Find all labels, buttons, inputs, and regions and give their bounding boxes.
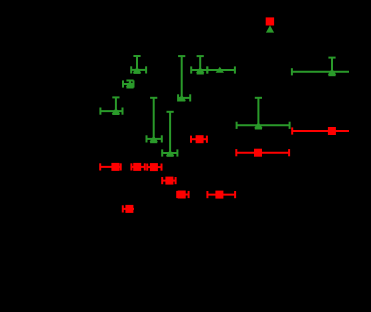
red point 5 (x137 y167) x error bar [131, 163, 144, 170]
red point 8 (x182 y194) square marker [178, 191, 186, 199]
red point 9 (x219 y195) x error bar [207, 191, 235, 198]
green point 2 (x130 y84) x error bar [123, 80, 134, 87]
green point 5 (x170 y153) x error bar [162, 149, 177, 156]
red point 7 (x169 y181) square marker [165, 177, 173, 185]
red point 5 (x137 y167) square marker [133, 163, 141, 171]
green point 4 (x154 y139) y error bar [150, 98, 157, 142]
green point 3 (x116 y111) y error bar [112, 97, 119, 114]
green point 6 (x182 y98) x error bar [178, 94, 190, 101]
green point 1 (x137 y70) triangle marker [133, 67, 141, 73]
green point 8 (x220 y70) x error bar [207, 66, 235, 73]
green point 4 (x154 y139) x error bar [147, 135, 162, 142]
red point 8 (x182 y194) x error bar [177, 191, 188, 198]
green point 7 (x200 y70) triangle marker [196, 67, 204, 73]
green point 10 (x332 y72) x error bar [292, 68, 349, 75]
red point 3 (x200 y139) square marker [196, 135, 204, 143]
green point 3 (x116 y111) x error bar [100, 108, 122, 115]
green point 7 (x200 y70) x error bar [191, 66, 207, 73]
green point 9 (x258 y125) triangle marker [254, 122, 262, 128]
green point 5 (x170 y153) y error bar [167, 112, 174, 156]
legend green triangle marker [266, 25, 274, 32]
red point 9 (x219 y195) square marker [215, 191, 223, 199]
red point 6 (x154 y167) x error bar [147, 164, 161, 171]
red point 6 (x154 y167) square marker [150, 163, 158, 171]
green point 6 (x182 y98) y error bar [178, 56, 185, 100]
green point 5 (x170 y153) triangle marker [166, 150, 174, 156]
legend red square marker [266, 17, 274, 25]
green point 4 (x154 y139) triangle marker [150, 136, 158, 142]
green point 9 (x258 y125) x error bar [237, 122, 290, 129]
red point 1 (x332 y131) x error bar [292, 127, 349, 134]
green point 3 (x116 y111) triangle marker [112, 108, 120, 114]
red point 4 (x115 y167) square marker [111, 163, 119, 171]
green point 10 (x332 y72) y error bar [328, 58, 335, 76]
green point 9 (x258 y125) y error bar [255, 98, 262, 129]
green point 8 (x220 y70) triangle marker [216, 67, 224, 73]
red point 2 (x258 y153) square marker [254, 149, 262, 157]
green point 7 (x200 y70) y error bar [197, 56, 204, 73]
green point 1 (x137 y70) y error bar [133, 56, 140, 73]
red point 10 (x129 y209) x error bar [123, 205, 134, 212]
red point 10 (x129 y209) square marker [125, 205, 133, 213]
red point 1 (x332 y131) square marker [328, 127, 336, 135]
red point 2 (x258 y153) x error bar [236, 149, 289, 156]
green point 10 (x332 y72) triangle marker [328, 69, 336, 75]
red point 3 (x200 y139) x error bar [191, 136, 207, 143]
green point 2 (x130 y84) y error bar [126, 81, 133, 88]
red point 4 (x115 y167) x error bar [100, 163, 121, 170]
green point 6 (x182 y98) triangle marker [178, 95, 186, 101]
green point 2 (x130 y84) triangle marker [126, 81, 134, 87]
green point 1 (x137 y70) x error bar [131, 66, 146, 73]
red point 7 (x169 y181) x error bar [162, 177, 175, 184]
